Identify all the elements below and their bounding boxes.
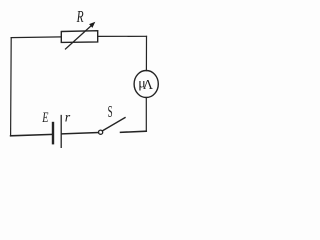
svg-text:Λ: Λ xyxy=(143,78,154,93)
svg-text:R: R xyxy=(76,7,84,26)
svg-text:E: E xyxy=(42,110,49,126)
svg-text:r: r xyxy=(65,111,71,126)
svg-text:S: S xyxy=(108,102,113,121)
